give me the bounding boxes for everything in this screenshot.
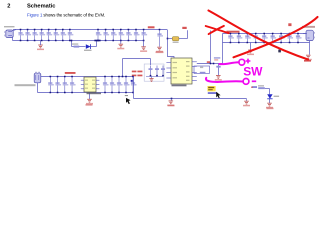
- wire bottom right vert: [133, 77, 135, 99]
- wire to output bank: [222, 43, 224, 64]
- wire GND stub 2: [120, 41, 122, 45]
- caption: [27, 13, 105, 18]
- capacitor C24: [262, 33, 268, 44]
- U2 part number label: [87, 93, 102, 95]
- capacitor C20: [228, 33, 234, 44]
- capacitor C5: [47, 29, 53, 42]
- svg-text:2: 2: [7, 3, 10, 9]
- capacitor C37: [131, 76, 137, 94]
- annotation SW wire bottom: [206, 78, 243, 82]
- dark speck below rail: [278, 50, 281, 53]
- wire input bottom rail: [13, 40, 145, 42]
- wire bottom bottom rail: [38, 92, 134, 94]
- wire GND stub 3: [143, 41, 145, 47]
- wire U1 right pin y72.3: [192, 71, 197, 73]
- LED D1: [86, 44, 91, 49]
- wire gnd return run: [134, 98, 247, 100]
- blue link text: [208, 92, 217, 94]
- net label small blue: [251, 86, 257, 88]
- wire U1 left pin y78: [166, 77, 171, 79]
- wire bottom top rail: [41, 76, 134, 78]
- wire U2 left pin y88.8: [81, 88, 84, 90]
- wire U2 left pin y84.5: [81, 84, 84, 86]
- capacitor C14: [134, 29, 140, 42]
- ground input GND: [37, 45, 44, 50]
- wire U2 right pin y80.2: [96, 79, 99, 81]
- capacitor C18 (comp): [200, 67, 206, 74]
- wire VOUT left vert: [222, 34, 224, 43]
- ground input GND 3: [140, 47, 147, 52]
- ground U1 GND: [167, 101, 174, 106]
- ground J2 GND: [305, 55, 312, 60]
- U1 part number label: [172, 85, 187, 87]
- wire U1 right pin y61.8: [192, 61, 197, 63]
- wire node row: [197, 63, 223, 65]
- divider part 3: [161, 66, 165, 77]
- capacitor C11: [111, 29, 117, 42]
- wire LED loop drop: [71, 41, 73, 47]
- capacitor C19 label: [214, 57, 220, 61]
- junction gnd return j: [171, 98, 173, 100]
- wire box gnd stub: [151, 77, 153, 79]
- search highlight: [207, 86, 215, 91]
- wire SW riser upper: [210, 31, 212, 64]
- capacitor C3: [33, 29, 39, 42]
- op IC U1 TPS54360: [171, 58, 192, 84]
- capacitor C2: [25, 29, 31, 42]
- wire LED loop bottom 2: [91, 46, 97, 48]
- capacitor C21: [237, 33, 243, 44]
- ground return GND: [243, 101, 250, 106]
- label J2: [302, 26, 315, 28]
- dark mark near rail corner: [126, 98, 131, 104]
- capacitor C36: [124, 76, 130, 94]
- divider part 2: [155, 66, 159, 77]
- wire U1 left pin y62.7: [166, 62, 171, 64]
- label R1 value: [72, 43, 79, 44]
- wire FB drop into box: [150, 59, 152, 66]
- net label VOUT net label: [227, 31, 240, 33]
- wire U2 right pin y84.5: [96, 84, 99, 86]
- annotation SW text: [243, 64, 263, 78]
- mouse cursor: [216, 92, 220, 98]
- wire FB top run: [123, 58, 151, 60]
- U1 gnd text: [168, 105, 175, 107]
- wire VOUT bottom rail: [223, 42, 310, 44]
- svg-text:Figure 1 shows the schematic o: Figure 1 shows the schematic of the EVM.: [27, 13, 105, 18]
- comp network loop: [194, 66, 210, 73]
- capacitor C16: [157, 29, 163, 47]
- ground bottom GND: [86, 99, 93, 104]
- wire U1 left pin y68: [166, 67, 171, 69]
- net label R_EN 2: [132, 75, 143, 77]
- label J1 label VIN 8V to 18V: [4, 26, 15, 27]
- heading section number 2: [7, 3, 10, 9]
- tiny label speck: [125, 95, 128, 96]
- wire GND stub: [40, 41, 42, 46]
- ground C19 GND: [215, 76, 222, 81]
- ground output GND: [247, 50, 254, 55]
- ground C16 GND: [156, 47, 163, 52]
- wire D2 drop: [269, 89, 271, 95]
- annotation small x stroke 1: [206, 26, 229, 33]
- annotation SW wire top: [220, 62, 239, 64]
- capacitor C33: [103, 76, 109, 94]
- junction inductor branch: [167, 38, 169, 40]
- capacitor C29: [48, 76, 54, 94]
- wire U2 right pin y88.8: [96, 88, 99, 90]
- net label R_EN 1: [132, 71, 143, 73]
- wire U1 left pin y72.7: [166, 72, 171, 74]
- net label J2 gnd label: [304, 60, 311, 62]
- ground EN divider GND: [149, 79, 153, 82]
- wire gnd return stub 2: [246, 99, 248, 102]
- annotation SW terminal top: [239, 59, 245, 65]
- capacitor C27: [287, 33, 293, 44]
- junction LED loop right: [94, 40, 100, 42]
- divider part 1: [149, 66, 153, 77]
- wire VOUT top rail: [223, 33, 307, 35]
- bottom gnd text: [86, 104, 93, 106]
- wire J1 to VIN rail: [13, 30, 16, 31]
- net label SW net label: [182, 27, 186, 29]
- net label VOUT_LDO label: [65, 72, 76, 74]
- D2 gnd text: [267, 108, 274, 110]
- wire LED loop rise: [96, 41, 98, 47]
- wire FB riser: [122, 59, 124, 77]
- wire box bottom link: [146, 76, 163, 78]
- heading title Schematic: [27, 3, 55, 9]
- resistor R1: [74, 46, 80, 48]
- wire U1 right pin y66.3: [192, 65, 197, 67]
- resistor R8: [258, 87, 265, 89]
- wire gnd return stub: [171, 99, 173, 101]
- capacitor C4: [40, 29, 46, 42]
- ground D2 GND: [266, 103, 273, 108]
- wire U1 right pin y80.3: [192, 79, 197, 81]
- capacitor C25: [271, 33, 277, 44]
- wire J3 negative drop: [37, 83, 39, 93]
- capacitor C32: [70, 76, 76, 94]
- wire R8 to D2: [265, 88, 270, 90]
- wire U1 right pin y76.5: [192, 76, 197, 78]
- capacitor C28: [296, 33, 302, 44]
- net label small net label: [207, 61, 210, 63]
- wire D2 to gnd: [269, 99, 271, 103]
- label D2 label: [274, 96, 280, 97]
- connector J2 (VOUT): [303, 30, 315, 40]
- capacitor C9: [96, 29, 102, 42]
- capacitor C31: [63, 76, 69, 94]
- wire VOUT gnd stub: [250, 43, 252, 51]
- wire C19 body: [218, 64, 220, 76]
- highlight box EN/UVLO: [144, 64, 164, 81]
- capacitor C8: [68, 29, 74, 42]
- net label VIN net label: [148, 26, 155, 28]
- annotation small x stroke 2: [209, 26, 224, 34]
- wire to L1: [168, 38, 173, 40]
- annotation big X stroke A: [209, 11, 309, 60]
- annotation minus sign: [252, 80, 256, 82]
- wire J1 negative drop: [12, 37, 14, 41]
- wire U2 left pin y80.2: [81, 79, 84, 81]
- svg-text:Schematic: Schematic: [27, 3, 55, 9]
- inductor L1: [172, 37, 179, 41]
- annotation plus sign: [246, 59, 251, 64]
- junction LED loop left: [71, 40, 73, 42]
- label D1 label: [84, 50, 92, 51]
- capacitor C15: [142, 29, 148, 42]
- wire L1 to SW node: [179, 38, 188, 40]
- capacitor C22: [245, 33, 251, 44]
- capacitor C35: [117, 76, 123, 94]
- junction via blue: [131, 80, 133, 82]
- capacitor C1: [18, 29, 24, 42]
- connector J3 (VOUT aux): [34, 72, 41, 83]
- capacitor C26: [279, 33, 285, 44]
- connector J1 (VIN input): [4, 30, 13, 38]
- capacitor C12: [119, 29, 125, 42]
- wire VIN top rail: [13, 29, 167, 31]
- capacitor C13: [126, 29, 132, 42]
- LED D2: [267, 94, 272, 99]
- junction node row j1: [210, 63, 212, 65]
- annotation SW terminal bottom: [243, 79, 249, 85]
- ground input GND 2: [117, 44, 124, 49]
- wire SW node rise: [187, 30, 189, 38]
- wire VIN down to U1: [168, 30, 175, 59]
- capacitor C19 plates: [216, 66, 220, 68]
- label J3 label: [15, 84, 36, 86]
- wire bottom gnd stub: [89, 93, 91, 100]
- capacitor C34: [110, 76, 116, 94]
- net label VOUT net label 2: [288, 23, 291, 26]
- junction node row j2: [213, 63, 215, 65]
- capacitor C30: [55, 76, 61, 94]
- wire J2 negative drop: [309, 41, 311, 55]
- capacitor C23: [254, 33, 260, 44]
- capacitor C7: [61, 29, 67, 42]
- C16 gnd text: [156, 51, 164, 53]
- op IC U2 (LDO): [84, 77, 96, 92]
- svg-text:SW: SW: [243, 64, 263, 78]
- label R8 value: [258, 85, 264, 86]
- wire LED loop bottom 1: [72, 46, 86, 48]
- label L1 label: [173, 42, 179, 43]
- annotation big X stroke B: [234, 17, 318, 57]
- capacitor C6: [54, 29, 60, 42]
- capacitor C10: [104, 29, 110, 42]
- junction feedback tap: [122, 76, 124, 78]
